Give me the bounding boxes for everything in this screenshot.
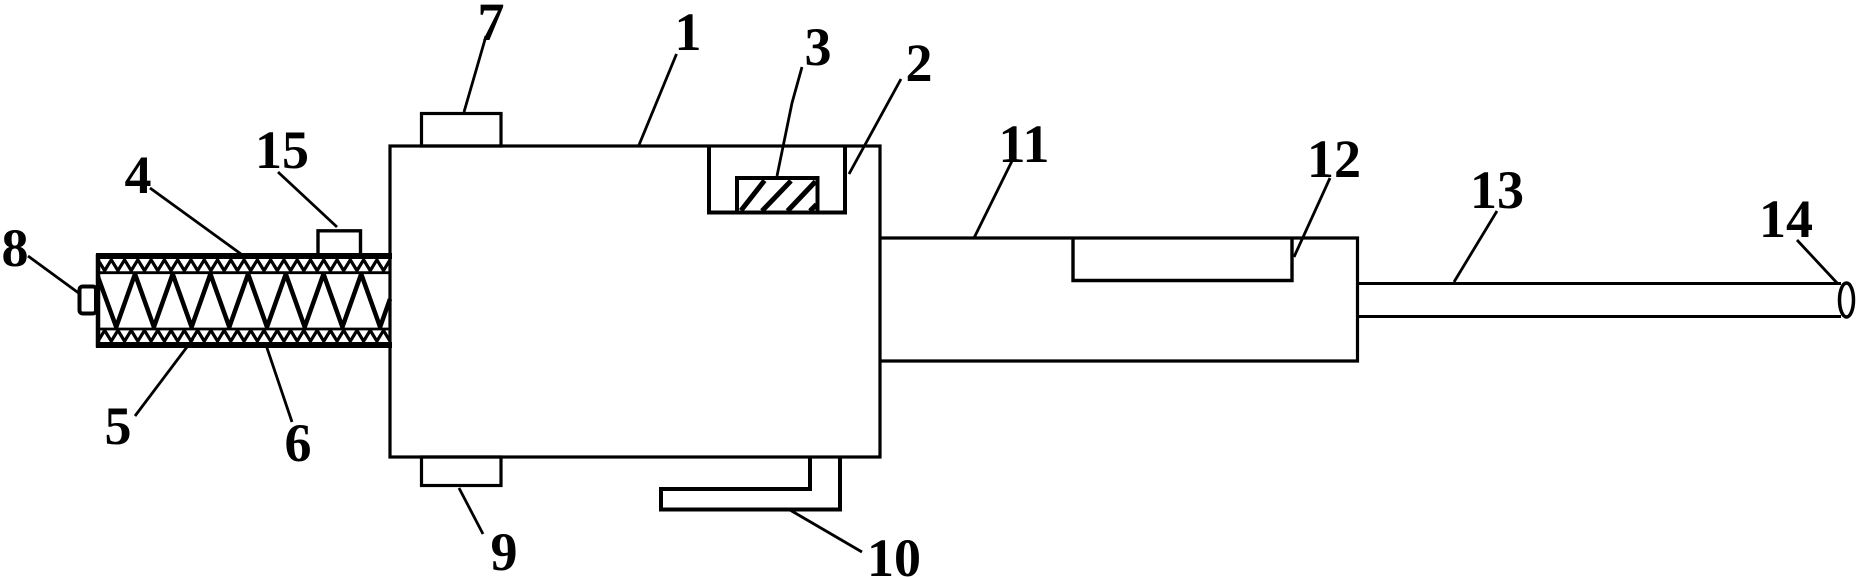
svg-text:4: 4 — [125, 145, 152, 205]
svg-text:9: 9 — [491, 522, 518, 578]
top block 7 — [422, 114, 502, 147]
svg-text:3: 3 — [805, 17, 832, 77]
screw housing left edge — [96, 254, 101, 348]
bottom block 9 — [422, 457, 502, 486]
slot 12 — [1073, 238, 1292, 281]
svg-text:12: 12 — [1307, 129, 1361, 189]
svg-text:7: 7 — [478, 0, 505, 52]
svg-text:1: 1 — [675, 2, 702, 62]
heater block 3 — [737, 178, 818, 213]
svg-text:10: 10 — [867, 528, 921, 578]
svg-text:14: 14 — [1759, 189, 1813, 249]
svg-text:8: 8 — [2, 218, 29, 278]
inner box 2 — [709, 146, 845, 213]
leader 8 — [28, 256, 80, 294]
screw housing bottom bar — [96, 342, 392, 348]
leader 2 — [849, 79, 901, 174]
leader 1 — [639, 54, 677, 145]
rod bottom line 13 — [1358, 315, 1842, 318]
lower thread teeth — [98, 330, 390, 341]
leader 7 — [464, 36, 486, 112]
svg-text:13: 13 — [1470, 160, 1524, 220]
upper thread teeth — [98, 260, 390, 271]
svg-text:5: 5 — [105, 396, 132, 456]
leader 6 — [266, 345, 292, 422]
screw housing inner bottom line — [98, 328, 390, 331]
leader 13 — [1454, 211, 1497, 282]
stop block 15 — [318, 231, 361, 255]
screw flight zigzag — [98, 274, 390, 327]
end cap 8 — [80, 287, 97, 314]
svg-text:2: 2 — [906, 33, 933, 93]
leader 15 — [278, 172, 337, 227]
leader 4 — [150, 188, 241, 254]
leader 5 — [135, 339, 193, 416]
svg-text:11: 11 — [998, 114, 1049, 174]
svg-text:15: 15 — [255, 120, 309, 180]
rod tip 14 — [1840, 283, 1854, 317]
svg-text:6: 6 — [285, 413, 312, 473]
bracket 10 — [661, 457, 840, 510]
leader 9 — [459, 488, 483, 534]
screw housing inner top line — [98, 271, 390, 274]
main body 1 — [390, 146, 880, 457]
leader 11 — [974, 161, 1012, 238]
leader 12 — [1294, 178, 1330, 257]
extension body 11 — [880, 238, 1358, 361]
leader 14 — [1797, 240, 1838, 284]
leader 10 — [790, 510, 862, 552]
rod top line 13 — [1358, 282, 1842, 285]
leader 3 — [777, 67, 802, 176]
screw housing top bar — [96, 253, 392, 259]
hatch lines of 3 — [741, 181, 817, 212]
